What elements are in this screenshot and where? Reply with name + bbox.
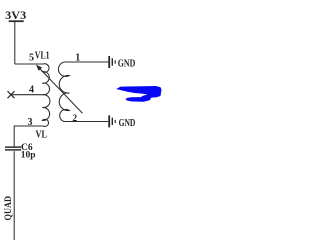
svg-text:VL1: VL1 (35, 51, 50, 62)
svg-text:4: 4 (29, 85, 34, 96)
svg-text:5: 5 (29, 52, 34, 63)
svg-text:GND: GND (119, 118, 136, 129)
svg-text:GND: GND (118, 58, 136, 69)
svg-text:10p: 10p (21, 151, 36, 161)
svg-text:3V3: 3V3 (5, 8, 26, 22)
svg-text:1: 1 (75, 53, 80, 64)
svg-text:3: 3 (28, 117, 33, 128)
svg-text:QUAD: QUAD (4, 196, 14, 221)
svg-text:VL: VL (36, 130, 48, 141)
svg-text:2: 2 (72, 114, 77, 124)
